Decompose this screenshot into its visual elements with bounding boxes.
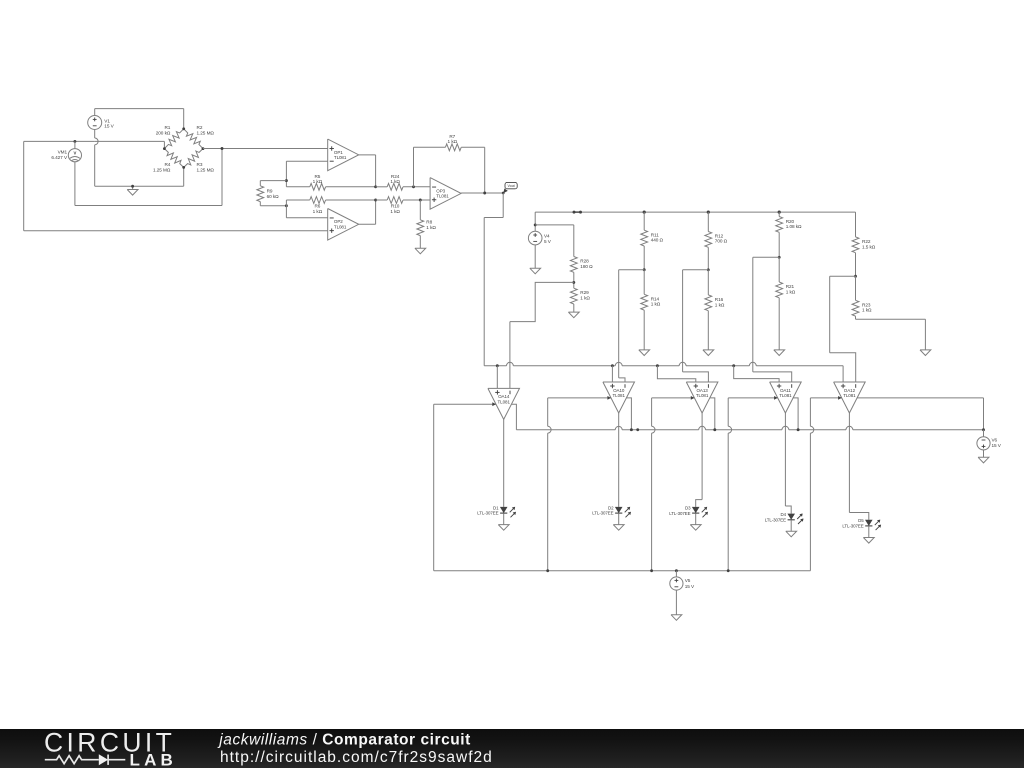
svg-text:1.08 kΩ: 1.08 kΩ (786, 224, 802, 229)
svg-text:LTL-307EE: LTL-307EE (765, 517, 786, 522)
svg-text:700 Ω: 700 Ω (715, 239, 728, 244)
svg-text:LTL-307EE: LTL-307EE (669, 511, 690, 516)
svg-text:D1: D1 (493, 505, 499, 510)
svg-text:R9: R9 (267, 189, 273, 194)
svg-text:OP2: OP2 (334, 219, 343, 224)
svg-text:R23: R23 (862, 302, 871, 307)
svg-text:TL081: TL081 (497, 399, 510, 404)
svg-text:R4: R4 (164, 162, 170, 167)
svg-text:15 V: 15 V (104, 124, 114, 129)
svg-text:R1: R1 (164, 125, 170, 130)
svg-text:TL081: TL081 (612, 393, 625, 398)
svg-text:D4: D4 (781, 512, 787, 517)
svg-text:http://circuitlab.com/c7fr2s9s: http://circuitlab.com/c7fr2s9sawf2d (220, 749, 493, 766)
svg-text:D2: D2 (608, 505, 614, 510)
svg-text:V1: V1 (104, 118, 110, 123)
svg-text:TL081: TL081 (334, 155, 347, 160)
svg-text:jackwilliams / Comparator circ: jackwilliams / Comparator circuit (217, 731, 471, 748)
svg-text:TL081: TL081 (436, 194, 449, 199)
svg-text:OP3: OP3 (436, 188, 445, 193)
svg-text:LAB: LAB (130, 751, 178, 768)
svg-text:R28: R28 (580, 259, 589, 264)
svg-text:V4: V4 (544, 234, 550, 239)
svg-text:1.25 MΩ: 1.25 MΩ (153, 168, 171, 173)
svg-text:5 V: 5 V (544, 239, 552, 244)
svg-text:LTL-307EE: LTL-307EE (477, 511, 498, 516)
svg-text:1 kΩ: 1 kΩ (313, 179, 323, 184)
svg-text:R8: R8 (426, 220, 432, 225)
svg-text:180 Ω: 180 Ω (580, 264, 593, 269)
svg-text:1 kΩ: 1 kΩ (448, 139, 458, 144)
svg-text:1.5 kΩ: 1.5 kΩ (862, 244, 876, 249)
svg-text:1.25 MΩ: 1.25 MΩ (197, 168, 215, 173)
svg-text:R14: R14 (651, 296, 660, 301)
svg-text:1.25 MΩ: 1.25 MΩ (197, 130, 215, 135)
svg-text:VM1: VM1 (58, 150, 68, 155)
svg-text:OP1: OP1 (334, 150, 343, 155)
svg-text:440 Ω: 440 Ω (651, 238, 664, 243)
svg-text:Vout: Vout (508, 184, 515, 188)
svg-text:R10: R10 (391, 204, 400, 209)
svg-text:V5: V5 (685, 578, 691, 583)
svg-text:LTL-307EE: LTL-307EE (842, 523, 863, 528)
svg-text:R12: R12 (715, 233, 724, 238)
svg-text:R24: R24 (391, 174, 400, 179)
svg-text:1 kΩ: 1 kΩ (651, 302, 661, 307)
svg-text:R11: R11 (651, 232, 660, 237)
svg-text:D5: D5 (858, 518, 864, 523)
svg-text:15 V: 15 V (685, 584, 695, 589)
svg-text:V6: V6 (992, 438, 998, 443)
svg-text:V: V (74, 151, 77, 156)
svg-text:R3: R3 (197, 162, 203, 167)
svg-text:R21: R21 (786, 284, 795, 289)
svg-text:1 kΩ: 1 kΩ (786, 289, 796, 294)
svg-text:1 kΩ: 1 kΩ (862, 308, 872, 313)
svg-text:1 kΩ: 1 kΩ (390, 209, 400, 214)
svg-text:60 kΩ: 60 kΩ (267, 194, 280, 199)
svg-text:R6: R6 (314, 204, 320, 209)
svg-text:1 kΩ: 1 kΩ (715, 302, 725, 307)
svg-text:R20: R20 (786, 219, 795, 224)
svg-text:D3: D3 (685, 506, 691, 511)
svg-text:R22: R22 (862, 239, 871, 244)
svg-text:15 V: 15 V (992, 443, 1002, 448)
svg-text:TL081: TL081 (779, 393, 792, 398)
svg-text:R16: R16 (715, 297, 724, 302)
svg-text:1 kΩ: 1 kΩ (580, 296, 590, 301)
svg-text:R2: R2 (197, 125, 203, 130)
svg-text:6.427 V: 6.427 V (51, 155, 68, 160)
svg-text:1 kΩ: 1 kΩ (313, 209, 323, 214)
svg-text:1 kΩ: 1 kΩ (426, 225, 436, 230)
svg-text:1 kΩ: 1 kΩ (390, 179, 400, 184)
svg-text:R29: R29 (580, 290, 589, 295)
svg-text:R7: R7 (449, 134, 455, 139)
svg-text:R5: R5 (314, 174, 320, 179)
svg-text:TL081: TL081 (696, 393, 709, 398)
svg-text:200 kΩ: 200 kΩ (156, 130, 171, 135)
svg-text:LTL-307EE: LTL-307EE (592, 511, 613, 516)
svg-text:TL081: TL081 (334, 225, 347, 230)
svg-text:TL081: TL081 (843, 393, 856, 398)
